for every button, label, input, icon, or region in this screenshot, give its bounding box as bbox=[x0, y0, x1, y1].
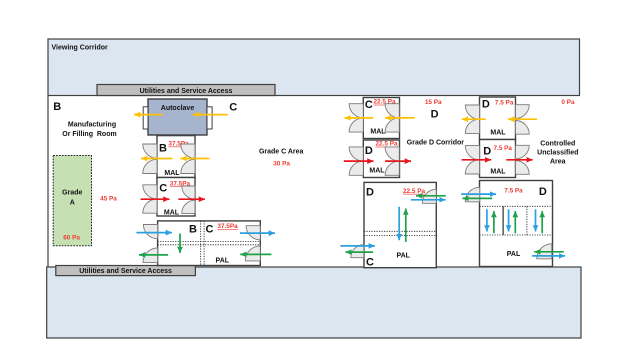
svg-text:37.5Pa: 37.5Pa bbox=[217, 223, 238, 230]
svg-text:D: D bbox=[366, 186, 374, 198]
door frame: autoclave right bbox=[207, 107, 212, 129]
arrow: blue out of PAL right bbox=[240, 232, 275, 234]
room: MAL C (middle) bbox=[363, 98, 399, 139]
arrow: green PAL from right bbox=[240, 253, 271, 255]
svg-text:B: B bbox=[189, 223, 197, 235]
svg-text:Utilities and Service Access: Utilities and Service Access bbox=[79, 268, 172, 275]
arrow: green mid PAL bottom exit bbox=[345, 251, 373, 253]
door arc: mid MAL D right lower bbox=[385, 161, 399, 175]
door arc: mid MAL C left upper bbox=[349, 104, 363, 118]
arrow: red right MAL D2 inner bbox=[506, 159, 532, 161]
svg-text:Controlled: Controlled bbox=[540, 140, 575, 147]
door frame: autoclave left bbox=[143, 107, 148, 129]
arrow: red MAL C outer bbox=[141, 198, 170, 200]
door arc: right MAL D1 right upper bbox=[516, 105, 530, 119]
svg-text:60 Pa: 60 Pa bbox=[63, 234, 80, 241]
door arc: MAL B left upper bbox=[143, 144, 157, 158]
changing cells: dashed lines right PAL bbox=[480, 205, 553, 207]
room: Viewing Corridor bbox=[48, 39, 580, 96]
arrow: green right PAL top exit bbox=[462, 197, 492, 199]
arrow: blue mid PAL down bbox=[398, 207, 400, 240]
door arc: MAL C right lower bbox=[182, 200, 195, 213]
svg-text:D: D bbox=[482, 99, 490, 111]
door arc: MAL C right upper bbox=[182, 186, 195, 199]
svg-text:D: D bbox=[365, 145, 373, 157]
arrow: red right MAL D2 outer bbox=[462, 159, 492, 161]
arrow: green PAL exit left bbox=[139, 254, 168, 256]
svg-text:PAL: PAL bbox=[216, 258, 230, 265]
arrow: green right PAL bottom exit bbox=[534, 251, 564, 253]
gowning line: vertical dashed pair bbox=[200, 221, 202, 266]
svg-text:15 Pa: 15 Pa bbox=[425, 99, 442, 106]
door arc: right MAL D2 left upper bbox=[465, 146, 479, 160]
door arc: right MAL D2 right lower bbox=[516, 161, 530, 175]
arrow: blue right PAL top enter bbox=[461, 193, 496, 195]
svg-text:Or Filling Room: Or Filling Room bbox=[62, 131, 116, 138]
svg-text:Grade C Area: Grade C Area bbox=[259, 149, 304, 156]
door arc: mid MAL D left lower bbox=[349, 161, 363, 175]
wall: main area left border bbox=[47, 96, 49, 268]
door arc: mid MAL D right upper bbox=[385, 147, 399, 161]
arrow: red mid MAL D inner bbox=[385, 160, 411, 162]
svg-text:Viewing Corridor: Viewing Corridor bbox=[52, 45, 109, 52]
svg-text:PAL: PAL bbox=[507, 251, 521, 258]
svg-text:22.5 Pa: 22.5 Pa bbox=[403, 188, 425, 195]
svg-text:MAL: MAL bbox=[490, 169, 506, 176]
door arc: MAL B left lower bbox=[143, 159, 157, 173]
arrow: green cell3 up bbox=[541, 211, 543, 233]
gowning line: horizontal dashed pair bbox=[158, 241, 261, 243]
svg-text:45 Pa: 45 Pa bbox=[100, 195, 117, 202]
room: PAL B/C (left) bbox=[158, 221, 261, 266]
svg-text:MAL: MAL bbox=[164, 170, 180, 177]
svg-text:B: B bbox=[53, 101, 61, 113]
door arc: right MAL D1 left upper bbox=[465, 105, 479, 119]
arrow: blue cell2 down bbox=[508, 209, 510, 231]
door arc: right PAL left bbox=[465, 187, 480, 202]
arrow: yellow right MAL D1 outer bbox=[462, 118, 486, 120]
arrow: green cell2 up bbox=[514, 211, 516, 233]
svg-text:MAL: MAL bbox=[369, 168, 385, 175]
svg-text:30 Pa: 30 Pa bbox=[273, 160, 290, 167]
room: MAL B (left) bbox=[157, 136, 195, 178]
svg-text:C: C bbox=[206, 223, 214, 235]
svg-text:MAL: MAL bbox=[370, 129, 386, 136]
door arc: mid MAL C right lower bbox=[385, 118, 399, 132]
svg-text:Grade D Corridor: Grade D Corridor bbox=[407, 139, 464, 146]
svg-text:A: A bbox=[70, 200, 75, 207]
svg-text:MAL: MAL bbox=[164, 210, 180, 217]
arrow: blue mid PAL bottom enter bbox=[340, 245, 375, 247]
svg-text:MAL: MAL bbox=[490, 130, 506, 137]
door arc: MAL C left upper bbox=[143, 185, 157, 199]
room: Grade A isolator bbox=[53, 156, 91, 246]
arrow: yellow right MAL D1 inner bbox=[508, 118, 537, 120]
arrow: yellow MAL B inner bbox=[180, 158, 209, 160]
arrow: red mid MAL D outer bbox=[344, 160, 374, 162]
door arc: MAL B right lower bbox=[181, 159, 195, 173]
svg-text:7.5 Pa: 7.5 Pa bbox=[494, 145, 513, 152]
arrow: yellow mid MAL C inner bbox=[385, 117, 415, 119]
svg-text:C: C bbox=[366, 256, 374, 268]
arrow: red MAL C inner bbox=[178, 198, 205, 200]
arrow: yellow autoclave to B room bbox=[134, 114, 163, 116]
door arc: right MAL D1 left lower bbox=[465, 119, 479, 133]
room: PAL D/C (middle) bbox=[364, 182, 436, 268]
room: Autoclave bbox=[143, 99, 212, 135]
door arc: right MAL D1 right lower bbox=[516, 121, 530, 135]
arrow: blue cell1 down bbox=[486, 209, 488, 231]
svg-text:7.5 Pa: 7.5 Pa bbox=[504, 188, 523, 195]
svg-text:D: D bbox=[539, 186, 547, 198]
arrow: blue into PAL left bbox=[136, 232, 172, 234]
svg-text:D: D bbox=[431, 109, 439, 121]
arrow: yellow C side into autoclave bbox=[193, 114, 228, 116]
door arc: PAL right upper bbox=[246, 226, 260, 240]
arrow: blue right PAL bottom enter bbox=[532, 255, 565, 257]
room: bottom corridor band bbox=[47, 267, 581, 338]
svg-text:Manufacturing: Manufacturing bbox=[68, 122, 116, 129]
svg-text:Grade: Grade bbox=[62, 190, 82, 197]
door arc: mid MAL D left upper bbox=[349, 147, 363, 161]
door arc: mid PAL left bbox=[351, 245, 364, 258]
gowning line: horizontal dashed pair middle PAL bbox=[364, 230, 436, 232]
door arc: MAL B right upper bbox=[181, 144, 195, 158]
svg-text:B: B bbox=[159, 143, 167, 155]
svg-text:C: C bbox=[159, 183, 167, 195]
top Utilities and Service Access bar bbox=[97, 85, 275, 96]
door arc: PAL left upper bbox=[143, 225, 157, 239]
arrow: yellow MAL B outer bbox=[141, 158, 172, 160]
svg-text:Area: Area bbox=[550, 158, 566, 165]
svg-text:Autoclave: Autoclave bbox=[161, 105, 195, 112]
door arc: PAL left lower bbox=[143, 248, 158, 263]
arrow: green mid PAL up bbox=[405, 209, 407, 242]
svg-text:D: D bbox=[483, 145, 491, 157]
arrow: blue cell3 down bbox=[535, 209, 537, 231]
room: MAL D2 (right) bbox=[480, 140, 516, 178]
arrow: blue mid PAL top enter bbox=[411, 199, 446, 201]
svg-text:7.5 Pa: 7.5 Pa bbox=[495, 99, 514, 106]
door arc: mid MAL C right upper bbox=[385, 104, 399, 118]
svg-text:PAL: PAL bbox=[396, 252, 410, 259]
svg-text:C: C bbox=[229, 101, 237, 113]
door arc: mid MAL C left lower bbox=[349, 118, 363, 132]
svg-text:Unclassified: Unclassified bbox=[537, 150, 578, 157]
svg-text:0 Pa: 0 Pa bbox=[561, 99, 575, 106]
door arc: MAL C left lower bbox=[143, 199, 157, 213]
svg-text:C: C bbox=[365, 99, 373, 111]
door arc: PAL right lower bbox=[245, 246, 260, 261]
svg-text:Utilities and Service Access: Utilities and Service Access bbox=[140, 88, 233, 95]
room: MAL D1 (right) bbox=[480, 97, 516, 140]
door arc: right MAL D2 right upper bbox=[516, 145, 530, 159]
room: MAL D (middle) bbox=[363, 140, 399, 178]
room: PAL D (right) bbox=[480, 181, 553, 267]
door arc: mid PAL right bbox=[422, 189, 436, 203]
arrow: yellow mid MAL C outer bbox=[344, 117, 373, 119]
arrow: green cell1 up bbox=[493, 211, 495, 233]
bottom Utilities and Service Access bar bbox=[56, 266, 196, 276]
door arc: right PAL right bbox=[537, 244, 552, 259]
room: MAL C (left) bbox=[157, 178, 195, 217]
door arc: right MAL D2 left lower bbox=[465, 160, 479, 174]
arrow: green PAL down bbox=[179, 234, 181, 254]
arrow: green mid PAL top exit bbox=[416, 195, 446, 197]
